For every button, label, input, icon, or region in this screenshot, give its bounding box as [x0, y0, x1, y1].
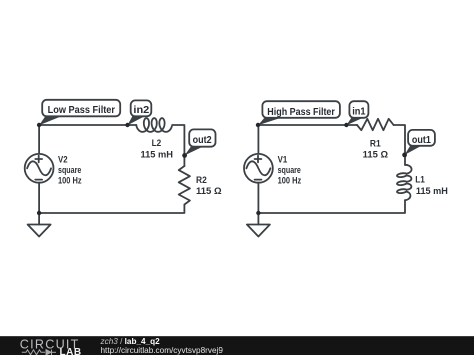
flag High Pass Filter [256, 101, 340, 127]
footer titles [101, 338, 160, 346]
wire V2 to bottom node [38, 183, 40, 225]
wire R2 to bottom rail [39, 205, 184, 214]
wire L2 to corner and down to R2 [172, 125, 184, 166]
resistor R1 [357, 119, 394, 130]
svg-text:High Pass Filter: High Pass Filter [267, 107, 335, 118]
svg-text:out1: out1 [412, 135, 431, 146]
wire top left (node A to L2) [39, 124, 136, 126]
wire L1 to bottom rail [258, 200, 405, 213]
inductor L2 [136, 118, 172, 132]
svg-text:V2: V2 [58, 154, 68, 164]
flag node in2 [125, 100, 151, 127]
svg-text:Low Pass Filter: Low Pass Filter [48, 105, 116, 116]
flag Low Pass Filter [37, 100, 120, 127]
svg-text:square: square [58, 165, 81, 175]
svg-text:R2: R2 [196, 175, 207, 185]
svg-text:LAB: LAB [60, 347, 82, 355]
svg-text:out2: out2 [193, 135, 212, 146]
ground (right) [247, 225, 270, 237]
svg-text:V1: V1 [278, 154, 288, 164]
wire V1 to bottom node [257, 183, 259, 225]
junction dot bottom left [37, 211, 41, 215]
svg-text:in2: in2 [133, 105, 150, 116]
ground (left) [28, 225, 51, 237]
voltage source V1 [244, 154, 273, 183]
svg-text:115 mH: 115 mH [416, 186, 448, 196]
svg-text:L2: L2 [152, 138, 162, 148]
inductor L1 [397, 165, 412, 201]
svg-text:100 Hz: 100 Hz [58, 176, 82, 186]
wire R1 to corner and down to L1 [394, 125, 405, 165]
resistor R2 [179, 166, 190, 205]
svg-text:115 Ω: 115 Ω [363, 150, 388, 160]
svg-text:100 Hz: 100 Hz [278, 176, 302, 186]
junction dot bottom right circuit [256, 211, 260, 215]
svg-text:115 mH: 115 mH [141, 150, 174, 160]
wire node B down to V1 [257, 125, 259, 154]
svg-text:in1: in1 [352, 107, 366, 118]
voltage source V2 [25, 154, 54, 183]
CircuitLab logo [0, 337, 95, 355]
svg-text:R1: R1 [370, 138, 381, 148]
footer bar [0, 336, 474, 355]
flag node out1 [402, 130, 435, 157]
flag node out2 [182, 129, 215, 157]
svg-text:L1: L1 [415, 175, 425, 185]
flag node in1 [344, 101, 368, 127]
wire node A down to V2 [38, 125, 40, 154]
wire top (node B to R1) [258, 124, 357, 126]
svg-text:115 Ω: 115 Ω [196, 186, 222, 196]
svg-text:square: square [278, 165, 301, 175]
